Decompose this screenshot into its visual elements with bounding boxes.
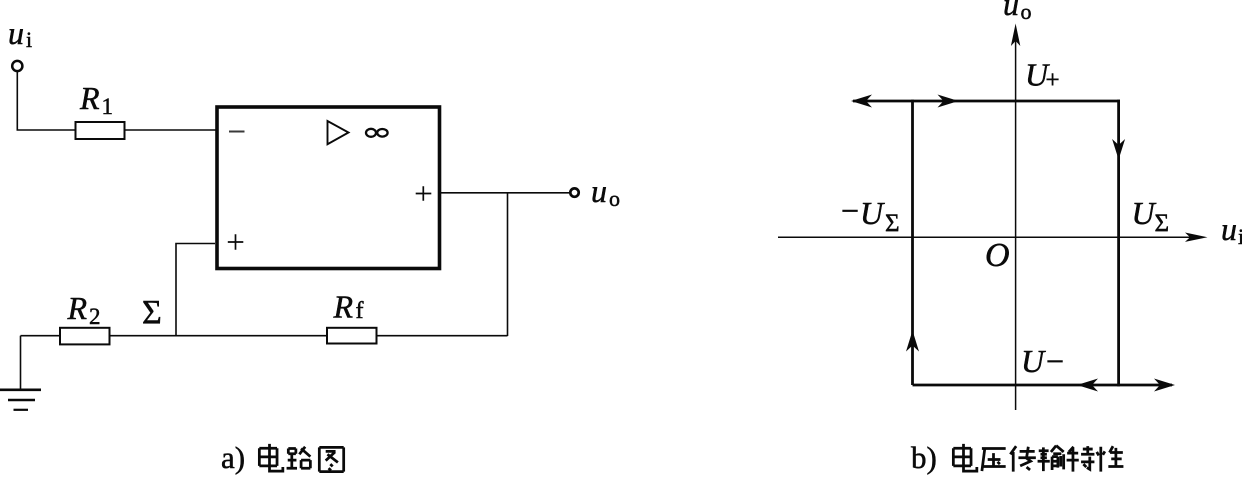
svg-text:R: R [67, 290, 88, 326]
op-amp infinity gain symbol [366, 129, 376, 137]
arrow right on top segment [938, 95, 959, 108]
caption char te (special) [1067, 446, 1095, 472]
svg-text:U: U [860, 195, 885, 231]
x-axis u_i [778, 236, 1202, 238]
svg-text:u: u [591, 173, 607, 209]
wire from non-inverting input left and down to node sigma [176, 244, 215, 336]
svg-text:o: o [1021, 0, 1032, 24]
bottom net wire (ground - R2 - sigma node - Rf - feedback) [21, 335, 508, 337]
arrow up on left vertical [906, 331, 919, 352]
svg-text:1: 1 [102, 94, 114, 119]
resistor R2 [60, 328, 110, 345]
caption char xing (character) [1097, 446, 1124, 472]
hysteresis loop: right vertical at U_sigma [1117, 100, 1120, 387]
x-axis arrowhead [1185, 233, 1208, 242]
svg-text:u: u [1221, 211, 1237, 247]
svg-text:2: 2 [89, 304, 101, 329]
svg-text:u: u [8, 15, 24, 51]
caption char dian (electric) [259, 444, 282, 471]
svg-text:i: i [26, 27, 32, 52]
caption char lu (road) [287, 447, 311, 468]
op-amp U1 box [217, 107, 440, 269]
caption char chuan (transmit) [1010, 446, 1036, 472]
caption char shu (transport) [1038, 446, 1064, 472]
svg-text:i: i [1238, 224, 1242, 249]
svg-text:−: − [841, 193, 859, 229]
svg-text:Σ: Σ [885, 210, 900, 237]
svg-text:R: R [79, 80, 100, 116]
op-amp minus (inverting input) [229, 131, 245, 133]
arrow left at end of top segment [851, 95, 872, 108]
wire R1 to op-amp inverting input [125, 129, 217, 131]
input terminal circle u_i [12, 61, 22, 71]
output wire to u_o terminal [441, 192, 570, 194]
svg-text:f: f [356, 298, 364, 324]
svg-text:R: R [333, 289, 354, 325]
svg-text:+: + [1046, 67, 1060, 94]
svg-text:a): a) [221, 440, 245, 475]
wire from u_i terminal down and right to R1 [17, 72, 76, 131]
hysteresis loop: bottom segment at U- [913, 384, 1173, 387]
svg-text:Σ: Σ [142, 294, 162, 331]
y-axis u_o [1015, 30, 1017, 410]
resistor R1 [76, 122, 125, 139]
svg-text:o: o [609, 186, 620, 211]
y-axis arrowhead [1011, 24, 1020, 47]
svg-text:−: − [1046, 343, 1064, 379]
arrow right at end of bottom segment [1154, 379, 1175, 392]
op-amp plus (non-inverting input) [228, 234, 244, 250]
svg-text:Σ: Σ [1155, 210, 1170, 237]
hysteresis loop: top segment at U+ [853, 100, 1120, 103]
svg-text:U: U [1132, 195, 1157, 231]
hysteresis loop: left vertical at -U_sigma [911, 100, 914, 385]
caption char tu (figure) [319, 447, 343, 471]
output terminal circle u_o [570, 188, 578, 196]
svg-text:b): b) [911, 440, 937, 475]
op-amp triangle symbol [328, 121, 349, 144]
wire to ground [20, 336, 22, 389]
resistor Rf [327, 328, 377, 344]
arrow down on right vertical [1112, 139, 1125, 160]
feedback wire from output node down to Rf [507, 193, 509, 336]
arrow left on bottom segment [1077, 379, 1098, 392]
ground symbol [0, 388, 41, 391]
caption char dian (electric) [953, 444, 976, 471]
caption char ya (pressure) [982, 448, 1006, 471]
svg-text:u: u [1003, 0, 1019, 22]
op-amp plus (output polarity mark) [416, 186, 432, 201]
svg-text:O: O [985, 237, 1010, 274]
svg-text:U: U [1021, 343, 1046, 379]
